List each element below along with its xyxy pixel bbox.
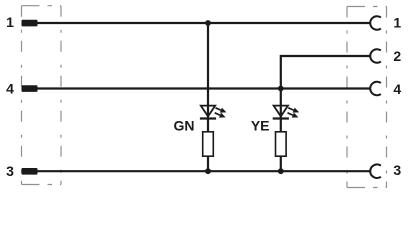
wire GN resistor to pin3 line [207, 156, 209, 171]
left connector housing (dash-dot outline) [22, 6, 62, 185]
socket contact 3 right (female) [370, 164, 381, 178]
socket contact 4 right (female) [370, 82, 381, 96]
wire GN LED cathode to resistor [207, 119, 209, 133]
LED GN (green indicator) [200, 106, 216, 119]
resistor (YE branch) [276, 132, 287, 156]
wire pin2 (horizontal with bend down to pin4/LED branch) [281, 56, 371, 119]
wire pin4 (middle horizontal) [37, 87, 371, 89]
wire pin3 (bottom horizontal) [37, 170, 371, 172]
svg-text:1: 1 [6, 14, 14, 30]
pin 3 left contact (male) [22, 168, 38, 175]
socket contact 2 right (female) [370, 49, 381, 63]
svg-text:1: 1 [393, 15, 401, 31]
junction: GN branch on pin1 wire [205, 20, 211, 26]
svg-text:2: 2 [393, 48, 401, 64]
wire YE resistor to pin3 line [280, 156, 282, 171]
resistor (GN branch) [203, 132, 214, 156]
svg-text:3: 3 [393, 162, 401, 178]
wire pin1 (top horizontal) [37, 22, 371, 24]
wire GN branch vertical (from pin1 line to LED) [207, 23, 209, 119]
right connector housing (dash-dot outline) [347, 7, 387, 188]
LED YE emission arrow 1 [288, 108, 299, 113]
socket contact 1 right (female) [370, 16, 381, 30]
junction: GN branch on pin3 wire [205, 168, 211, 174]
svg-text:4: 4 [6, 81, 14, 97]
svg-text:GN: GN [174, 118, 195, 134]
LED YE emission arrow 2 [288, 113, 299, 118]
junction: YE branch on pin3 wire [278, 168, 284, 174]
svg-text:3: 3 [6, 163, 14, 179]
wire YE LED cathode to resistor [280, 119, 282, 133]
svg-text:YE: YE [251, 118, 270, 134]
LED GN emission arrow 2 [215, 113, 226, 118]
LED YE (yellow indicator) [273, 106, 289, 119]
junction: YE branch on pin4 wire [278, 86, 284, 92]
pin 1 left contact (male) [22, 20, 38, 27]
pin 4 left contact (male) [22, 85, 38, 92]
svg-text:4: 4 [393, 81, 401, 97]
LED GN emission arrow 1 [216, 108, 227, 113]
